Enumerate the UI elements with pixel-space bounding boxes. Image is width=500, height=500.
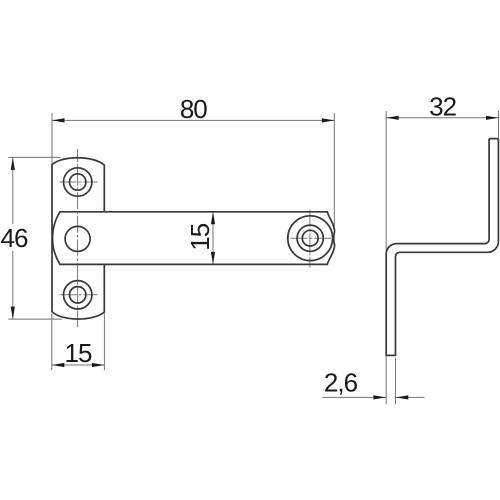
svg-text:32: 32	[429, 92, 456, 122]
svg-text:15: 15	[185, 223, 215, 250]
svg-text:80: 80	[180, 94, 207, 124]
svg-text:46: 46	[1, 223, 28, 253]
svg-text:15: 15	[65, 338, 92, 368]
svg-text:2,6: 2,6	[324, 368, 358, 398]
